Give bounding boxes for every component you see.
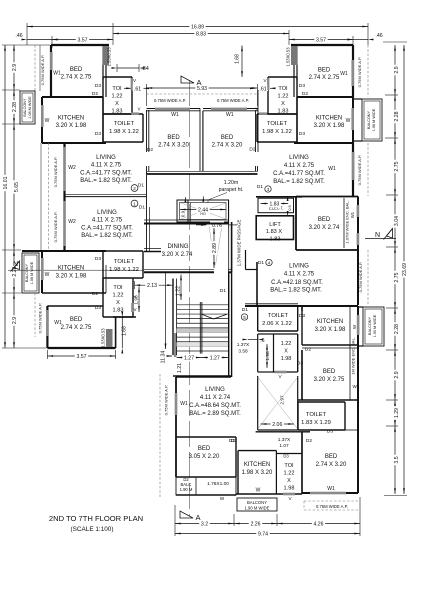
svg-text:BED: BED — [70, 317, 83, 323]
LR bed bottom window — [310, 492, 346, 495]
TL toilet vent — [131, 112, 139, 114]
LR toilet206 box — [257, 307, 259, 331]
svg-text:BED: BED — [325, 454, 338, 460]
stairwell walls — [172, 279, 174, 356]
svg-text:HO: HO — [200, 212, 206, 216]
svg-text:X: X — [115, 101, 119, 107]
LL bed walls — [46, 306, 48, 348]
svg-text:TOILET: TOILET — [267, 121, 288, 127]
svg-text:16.89: 16.89 — [191, 25, 204, 31]
svg-text:1.27: 1.27 — [210, 356, 220, 362]
duct flue diagonals — [181, 203, 226, 219]
svg-text:1.08 M WIDE: 1.08 M WIDE — [28, 96, 32, 119]
svg-text:TOI: TOI — [112, 86, 122, 92]
svg-text:2.74 X 2.75: 2.74 X 2.75 — [309, 75, 340, 81]
LR wall y305 — [245, 305, 358, 307]
svg-text:D3: D3 — [95, 256, 101, 262]
living separator wall — [65, 196, 147, 198]
svg-text:0.75M WIDE A.P.: 0.75M WIDE A.P. — [154, 98, 186, 103]
svg-text:BALCONY: BALCONY — [23, 98, 27, 117]
dimension 3.5 right — [394, 426, 396, 494]
elect box — [258, 198, 294, 213]
svg-text:W1: W1 — [340, 71, 348, 77]
svg-text:C.A.=41.77 SQ.MT.: C.A.=41.77 SQ.MT. — [273, 171, 325, 177]
svg-text:2.97: 2.97 — [280, 395, 286, 405]
svg-text:D2: D2 — [147, 147, 153, 153]
svg-text:D3: D3 — [299, 131, 305, 137]
svg-text:2.28: 2.28 — [394, 324, 400, 334]
svg-text:3.20 X 2.74: 3.20 X 2.74 — [162, 252, 193, 258]
svg-text:parapet ht.: parapet ht. — [219, 187, 244, 193]
svg-text:1.90 M WIDE: 1.90 M WIDE — [373, 314, 377, 337]
svg-text:X: X — [284, 349, 288, 355]
dimension 16.01 left — [4, 45, 6, 348]
duct parapet box — [177, 200, 229, 222]
svg-text:D2: D2 — [302, 91, 308, 97]
TL balcony box — [20, 91, 35, 124]
svg-text:4.11 X 2.75: 4.11 X 2.75 — [92, 218, 123, 224]
svg-text:V: V — [138, 107, 141, 112]
svg-text:TOILET: TOILET — [114, 259, 135, 265]
svg-text:D3: D3 — [95, 83, 101, 89]
svg-text:1.83 X: 1.83 X — [266, 229, 282, 235]
left living outer wall — [63, 143, 65, 251]
svg-text:KITCHEN: KITCHEN — [58, 116, 84, 122]
svg-text:2.28: 2.28 — [394, 111, 400, 121]
svg-text:3.57: 3.57 — [77, 38, 87, 44]
svg-text:0.75M WIDE A.P.: 0.75M WIDE A.P. — [53, 157, 58, 188]
extension lines top dims — [26, 23, 28, 45]
svg-text:1.98 X 1.22: 1.98 X 1.22 — [262, 129, 292, 135]
svg-text:W1: W1 — [328, 166, 336, 172]
LL toi box — [102, 278, 104, 317]
svg-text:3.57: 3.57 — [76, 354, 86, 360]
LR duct dims — [266, 344, 268, 368]
LL dim 1.68 — [121, 317, 123, 348]
dim 1.22 line — [180, 275, 182, 301]
svg-text:1.90 M WIDE: 1.90 M WIDE — [245, 506, 270, 511]
svg-text:.61: .61 — [259, 87, 266, 93]
dining walls — [144, 219, 229, 221]
TR kitchen window W — [351, 108, 354, 130]
svg-text:TOILET: TOILET — [268, 313, 289, 319]
dimension 4.26 bottom — [277, 523, 360, 525]
svg-text:3.05 X 2.20: 3.05 X 2.20 — [189, 454, 220, 460]
svg-text:D1: D1 — [220, 288, 226, 294]
svg-text:D2: D2 — [305, 347, 311, 353]
svg-text:3.04: 3.04 — [394, 216, 400, 226]
svg-text:W: W — [220, 496, 225, 501]
svg-text:BAL.= 2.89 SQ.MT.: BAL.= 2.89 SQ.MT. — [189, 411, 241, 417]
svg-text:0.75M WIDE A.P.: 0.75M WIDE A.P. — [358, 262, 363, 293]
LR duct slot — [258, 333, 274, 335]
dimension 2.26 bottom — [234, 523, 277, 525]
lift box — [256, 216, 293, 240]
svg-text:1.98: 1.98 — [281, 356, 292, 362]
svg-text:1.68: 1.68 — [235, 54, 241, 64]
dimension 2.75 right l — [394, 247, 396, 308]
svg-text:1.29: 1.29 — [394, 408, 400, 418]
TR column — [291, 46, 298, 65]
BC balc strip — [176, 477, 236, 495]
stair break arrow — [202, 314, 214, 319]
long line y270 — [8, 269, 144, 271]
svg-text:W1: W1 — [353, 384, 360, 389]
svg-text:W2: W2 — [68, 165, 76, 171]
dimension 3.57 top-left — [52, 39, 113, 41]
LR kitchen window — [357, 315, 360, 335]
svg-text:C.A.=42.18 SQ.MT.: C.A.=42.18 SQ.MT. — [271, 280, 323, 286]
svg-text:1.83: 1.83 — [270, 237, 281, 243]
dimension 2.75 right u — [394, 138, 396, 195]
svg-text:C.A.=41.77 SQ.MT.: C.A.=41.77 SQ.MT. — [81, 226, 133, 232]
svg-text:0.75M WIDE A.P.: 0.75M WIDE A.P. — [40, 55, 45, 86]
extension ticks left — [2, 44, 50, 46]
svg-text:D3: D3 — [95, 131, 101, 137]
svg-text:0.75M WIDE A.P.: 0.75M WIDE A.P. — [357, 155, 362, 186]
extension lines bottom — [174, 505, 176, 536]
LR toi box — [274, 333, 298, 335]
svg-text:TOILET: TOILET — [306, 412, 327, 418]
LL bed window W1 — [46, 310, 49, 336]
svg-text:8.83: 8.83 — [196, 32, 206, 38]
dining bottom wall — [144, 268, 214, 270]
TR bed window W1 — [351, 60, 354, 86]
svg-text:(SCALE 1:100): (SCALE 1:100) — [71, 526, 114, 533]
svg-text:D1: D1 — [242, 307, 248, 313]
BC toi window — [283, 493, 295, 496]
svg-text:1.27: 1.27 — [184, 356, 194, 362]
TL kitchen window W — [41, 105, 44, 127]
svg-text:4.11 X 2.74: 4.11 X 2.74 — [200, 395, 231, 401]
svg-text:D2: D2 — [92, 291, 98, 297]
svg-text:5: 5 — [243, 315, 246, 320]
svg-text:BALCONY: BALCONY — [247, 500, 267, 505]
svg-text:W1: W1 — [53, 71, 61, 77]
svg-text:W: W — [352, 324, 357, 329]
svg-text:3.20 X 2.75: 3.20 X 2.75 — [314, 377, 345, 383]
svg-text:D3: D3 — [327, 429, 333, 435]
svg-text:BED: BED — [167, 135, 180, 141]
center bed left window W1 — [155, 108, 190, 110]
svg-text:LIVING: LIVING — [96, 155, 116, 161]
svg-text:0.75M WIDE A.P.: 0.75M WIDE A.P. — [357, 57, 362, 88]
svg-text:C.A.=41.77 SQ.MT.: C.A.=41.77 SQ.MT. — [80, 171, 132, 177]
svg-text:BED: BED — [198, 446, 211, 452]
dim 11.34 — [165, 272, 167, 349]
svg-text:1M WIDE ENC. BAL.: 1M WIDE ENC. BAL. — [351, 337, 356, 375]
svg-text:2.75: 2.75 — [394, 161, 400, 171]
svg-text:2.74 X 3.20: 2.74 X 3.20 — [212, 143, 243, 149]
svg-text:0.75M WIDE A.P.: 0.75M WIDE A.P. — [53, 212, 58, 243]
BC balcony box — [237, 498, 277, 511]
svg-text:LIVING: LIVING — [97, 210, 117, 216]
LL kitchen walls — [22, 250, 106, 252]
svg-text:W1: W1 — [327, 486, 335, 492]
LL vent V — [131, 303, 134, 312]
BC living walls — [176, 376, 231, 378]
right bed walls — [296, 196, 358, 198]
dimension .46 top-right — [353, 39, 368, 41]
TL toi window gray — [131, 78, 133, 90]
svg-text:0.9: 0.9 — [287, 204, 292, 210]
left living windows W2 — [63, 147, 65, 191]
svg-text:1.22: 1.22 — [113, 293, 124, 299]
svg-text:W1: W1 — [180, 401, 188, 407]
svg-text:BAL.= 1.82 SQ.MT.: BAL.= 1.82 SQ.MT. — [80, 178, 132, 184]
svg-text:N: N — [375, 232, 380, 239]
dimension 3.04 right — [394, 195, 396, 247]
BC AP strip — [159, 430, 161, 497]
svg-text:D2: D2 — [249, 147, 255, 153]
dimension 8.83 top — [113, 33, 289, 35]
svg-text:1.98: 1.98 — [265, 351, 271, 361]
svg-text:2.13: 2.13 — [147, 283, 157, 289]
svg-text:KITCHEN: KITCHEN — [244, 462, 270, 468]
svg-text:TOI: TOI — [284, 463, 294, 469]
svg-text:3.57: 3.57 — [316, 38, 326, 44]
LR enc bal — [349, 307, 351, 400]
svg-text:3: 3 — [267, 187, 270, 192]
TL toi box — [103, 76, 132, 78]
dim 2.89 vertical — [213, 228, 215, 268]
TR toi box — [268, 76, 297, 78]
dimension 1.29 right — [394, 400, 396, 426]
svg-text:3.20 X 1.98: 3.20 X 1.98 — [315, 327, 346, 333]
LR kitchen walls — [301, 306, 303, 345]
dimension 2.28 right l — [394, 308, 396, 350]
svg-text:1.07: 1.07 — [279, 443, 289, 449]
stair bottom landing — [173, 375, 231, 377]
dimension 2.9 right u — [394, 45, 396, 95]
BC toi box — [277, 453, 302, 455]
svg-text:BED: BED — [221, 135, 234, 141]
svg-text:2.28: 2.28 — [12, 102, 18, 112]
svg-text:D2: D2 — [92, 91, 98, 97]
LL kitchen window — [41, 258, 44, 280]
extension ticks right — [383, 41, 407, 43]
svg-text:.46: .46 — [375, 33, 382, 39]
svg-text:16.01: 16.01 — [3, 176, 9, 189]
svg-text:3.5: 3.5 — [394, 456, 400, 463]
svg-text:LIVING: LIVING — [289, 264, 309, 270]
dimension 2.9 left lower — [13, 293, 15, 348]
stair dims 1.27 — [177, 357, 202, 359]
svg-text:W: W — [346, 118, 351, 124]
svg-text:LIFT: LIFT — [269, 222, 281, 228]
svg-text:W: W — [45, 118, 50, 124]
svg-text:5.65: 5.65 — [14, 182, 20, 192]
dimension 3.57 top-right — [289, 39, 353, 41]
svg-text:.46: .46 — [15, 33, 22, 39]
left AP strip living — [40, 143, 42, 251]
dimension 2.28 left upper — [13, 90, 15, 124]
svg-text:D2: D2 — [231, 438, 237, 444]
dimension 5.65 left — [13, 124, 15, 250]
dimension 16.89 top — [27, 26, 368, 28]
BC kitchen walls — [256, 431, 310, 433]
BC bed walls — [176, 436, 236, 438]
svg-text:X: X — [287, 478, 291, 484]
svg-text:LIVING: LIVING — [205, 387, 225, 393]
svg-text:2.75: 2.75 — [394, 272, 400, 282]
svg-text:2ND TO 7TH FLOOR PLAN: 2ND TO 7TH FLOOR PLAN — [49, 514, 143, 523]
svg-text:D1: D1 — [138, 183, 144, 189]
svg-text:1.98 X 1.22: 1.98 X 1.22 — [109, 267, 139, 273]
svg-text:9.74: 9.74 — [258, 532, 268, 538]
svg-text:3.20 X 2.74: 3.20 X 2.74 — [309, 225, 340, 231]
stair tread shading — [177, 329, 228, 333]
center AP dashed top — [147, 93, 258, 95]
svg-text:N: N — [13, 261, 18, 268]
svg-text:W1: W1 — [226, 112, 234, 118]
svg-text:0.75M WIDE A.P.: 0.75M WIDE A.P. — [164, 385, 169, 416]
svg-text:1.22: 1.22 — [112, 94, 123, 100]
svg-text:BALCONY: BALCONY — [25, 263, 29, 282]
LR toi window — [275, 371, 287, 374]
svg-text:D1: D1 — [258, 260, 264, 266]
svg-text:1.68: 1.68 — [122, 326, 128, 336]
svg-text:D2: D2 — [306, 438, 312, 444]
TR dim 1.68 — [241, 46, 243, 78]
svg-text:1.53X0.53: 1.53X0.53 — [107, 47, 112, 67]
LL balcony box — [22, 253, 39, 293]
center bed right walls — [255, 110, 257, 152]
svg-text:W: W — [45, 272, 50, 278]
svg-text:0.75M WIDE A.P.: 0.75M WIDE A.P. — [316, 504, 348, 509]
section marker A bottom — [180, 511, 193, 518]
svg-text:TOI: TOI — [278, 86, 288, 92]
svg-text:KITCHEN: KITCHEN — [316, 116, 342, 122]
svg-text:C.A.=48.64 SQ.MT.: C.A.=48.64 SQ.MT. — [189, 403, 241, 409]
svg-text:1.07M WIDE ENC. BAL.: 1.07M WIDE ENC. BAL. — [345, 200, 350, 243]
svg-text:2.06: 2.06 — [272, 422, 282, 428]
svg-text:1.37X: 1.37X — [237, 342, 250, 348]
svg-text:5.93: 5.93 — [197, 86, 207, 92]
svg-text:1.98: 1.98 — [134, 295, 140, 305]
svg-text:0.75M WIDE A.P.: 0.75M WIDE A.P. — [217, 98, 249, 103]
svg-text:2.74 X 3.20: 2.74 X 3.20 — [158, 143, 189, 149]
TR toilet box — [257, 113, 297, 115]
TR bed walls — [291, 44, 353, 46]
right AP strip living3 — [367, 143, 369, 196]
LL column — [106, 329, 113, 347]
dimension 3.2 bottom — [175, 523, 234, 525]
svg-text:BED: BED — [70, 67, 83, 73]
TL dim .84 — [117, 67, 139, 69]
living4 right wall — [357, 250, 359, 305]
LR bed 320x275 walls — [301, 350, 303, 400]
TR toilet vent — [259, 112, 267, 114]
svg-text:D3: D3 — [299, 83, 305, 89]
svg-text:1.22: 1.22 — [281, 341, 292, 347]
svg-text:4.11 X 2.75: 4.11 X 2.75 — [91, 163, 122, 169]
duct dim 0.76 — [196, 224, 207, 226]
svg-text:2.9: 2.9 — [12, 317, 18, 324]
svg-text:1.83: 1.83 — [270, 202, 280, 208]
svg-text:1.08 M WIDE: 1.08 M WIDE — [372, 108, 376, 131]
LL toilet box — [103, 250, 143, 252]
north arrow right — [365, 238, 396, 240]
TL kitchen walls — [42, 96, 103, 98]
svg-text:BED: BED — [318, 68, 331, 74]
TR balcony box — [362, 99, 382, 141]
stair treads — [177, 304, 229, 306]
passage walls — [228, 200, 230, 272]
svg-text:2.9: 2.9 — [394, 371, 400, 378]
svg-text:2: 2 — [133, 186, 136, 191]
svg-text:X: X — [116, 300, 120, 306]
svg-text:4.11 X 2.75: 4.11 X 2.75 — [284, 272, 315, 278]
svg-text:2.9: 2.9 — [12, 64, 18, 71]
svg-text:1.83 X 1.29: 1.83 X 1.29 — [301, 420, 331, 426]
TL AP strip — [39, 45, 41, 91]
svg-text:1.53X0.53: 1.53X0.53 — [286, 47, 291, 67]
left unit right wall — [146, 175, 148, 251]
LL AP strip — [34, 293, 36, 337]
dimension 23.69 right — [403, 45, 405, 494]
section line A-A — [189, 80, 191, 516]
svg-text:23.69: 23.69 — [402, 263, 408, 276]
svg-text:3.20 X 1.98: 3.20 X 1.98 — [314, 123, 345, 129]
section marker A top — [181, 76, 194, 83]
living4 left wall — [256, 262, 258, 307]
svg-text:1.22: 1.22 — [284, 471, 295, 477]
svg-text:A: A — [195, 513, 200, 522]
svg-text:TOI: TOI — [113, 285, 123, 291]
svg-text:1.98 X 1.22: 1.98 X 1.22 — [109, 129, 139, 135]
svg-text:2.9: 2.9 — [394, 66, 400, 73]
svg-text:3.20 X 1.98: 3.20 X 1.98 — [56, 274, 87, 280]
svg-text:4.26: 4.26 — [313, 522, 323, 528]
elect top wall — [256, 196, 302, 198]
svg-text:W2: W2 — [68, 219, 76, 225]
svg-text:3.20 X 1.98: 3.20 X 1.98 — [56, 123, 87, 129]
svg-text:D1: D1 — [139, 205, 145, 211]
svg-text:DINING: DINING — [168, 244, 189, 250]
svg-text:1: 1 — [133, 202, 136, 207]
center bed right window W1 — [211, 108, 247, 110]
LR balcony 190 box — [363, 307, 384, 346]
svg-text:TOILET: TOILET — [114, 121, 135, 127]
svg-text:BAL.= 1.82 SQ.MT.: BAL.= 1.82 SQ.MT. — [270, 288, 322, 294]
svg-text:2.74 X 2.75: 2.74 X 2.75 — [61, 75, 92, 81]
svg-text:1.53X0.53: 1.53X0.53 — [101, 328, 106, 348]
svg-text:KITCHEN: KITCHEN — [58, 266, 84, 272]
svg-text:4.11 X 2.75: 4.11 X 2.75 — [284, 163, 315, 169]
svg-text:BALCONY: BALCONY — [368, 316, 372, 335]
dimension 2.28 left lower — [13, 250, 15, 293]
svg-text:X: X — [281, 101, 285, 107]
svg-text:.84: .84 — [141, 66, 149, 72]
svg-text:BALCONY: BALCONY — [367, 110, 371, 129]
svg-text:.6: .6 — [260, 338, 264, 344]
BC living window W1 — [175, 393, 178, 415]
svg-text:1.76X1.00: 1.76X1.00 — [207, 481, 229, 487]
svg-text:D1: D1 — [257, 184, 263, 190]
svg-text:1.90 M: 1.90 M — [180, 487, 193, 492]
svg-text:2.74 X 2.75: 2.74 X 2.75 — [61, 325, 92, 331]
svg-text:3.58: 3.58 — [238, 349, 248, 355]
svg-text:2.06 X 1.22: 2.06 X 1.22 — [262, 321, 292, 327]
svg-text:KITCHEN: KITCHEN — [317, 319, 343, 325]
right bed enc bal — [343, 198, 345, 248]
svg-text:1.21: 1.21 — [177, 363, 183, 373]
dimension 2.9 right l — [394, 350, 396, 400]
TR kitchen walls — [297, 96, 353, 98]
dim 1.98 toi — [138, 287, 140, 313]
svg-text:1.20m: 1.20m — [224, 180, 238, 186]
